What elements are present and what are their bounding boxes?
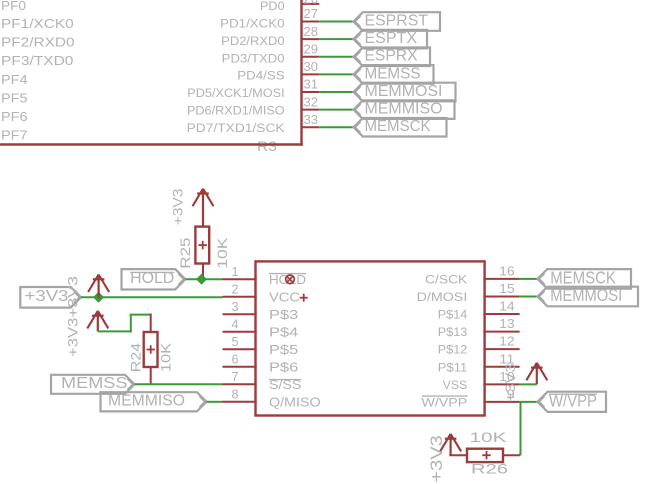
svg-text:15: 15 — [499, 281, 515, 296]
pin number 26 — [304, 0, 319, 6]
pin name PD2/RXD0 — [221, 34, 285, 48]
wire net MEMSS pin7 — [135, 383, 223, 385]
net label ESPRX — [354, 47, 431, 66]
pin name P$14 — [438, 308, 468, 322]
svg-text:PD1/XCK0: PD1/XCK0 — [220, 16, 285, 30]
svg-text:MEMSCK: MEMSCK — [365, 118, 432, 135]
svg-text:3: 3 — [232, 299, 239, 314]
svg-text:16: 16 — [499, 263, 515, 278]
wire net W/VPP pin9 — [520, 401, 539, 403]
pin 16 stub — [483, 278, 519, 280]
pin number 3 — [232, 299, 239, 314]
svg-text:Q/MISO: Q/MISO — [269, 395, 321, 410]
pin number 4 — [232, 316, 239, 331]
svg-text:HOLD: HOLD — [269, 272, 306, 287]
overline on HOLD flag text — [130, 271, 174, 273]
svg-text:PD0: PD0 — [260, 0, 285, 13]
pin name P$5 — [269, 342, 298, 357]
pin name PD5/XCK1/MOSI — [187, 86, 284, 100]
net label ESPRST — [354, 12, 441, 31]
pin name PD1/XCK0 — [220, 16, 285, 30]
pin number 5 — [232, 334, 239, 349]
+3V3 label (rotated, VSS arrow) — [502, 363, 518, 402]
label R26 — [471, 460, 508, 476]
+3V3 label (rotated, R26 arrow) — [428, 435, 446, 482]
svg-text:14: 14 — [499, 299, 515, 314]
svg-text:VCC: VCC — [269, 290, 300, 305]
pin number 12 — [499, 334, 515, 349]
IC U2 (SPI flash) box — [256, 261, 485, 415]
pin name PD7/TXD1/SCK — [187, 121, 286, 135]
net label MEMMISO (left) — [101, 392, 207, 411]
pin name PF6 — [1, 109, 28, 124]
pin 31 stub — [302, 91, 320, 93]
svg-text:W/VPP: W/VPP — [421, 395, 467, 409]
svg-text:P$14: P$14 — [438, 308, 468, 322]
pin 33 stub — [302, 126, 320, 128]
svg-text:31: 31 — [304, 77, 319, 92]
pin name PF7 — [1, 128, 28, 143]
wire W/VPP to R26 (vertical) — [520, 402, 522, 456]
pin name C/SCK — [425, 272, 468, 286]
wire net MEMSCK pin16 — [520, 278, 539, 280]
pin 32 stub — [302, 109, 320, 111]
svg-text:PD7/TXD1/SCK: PD7/TXD1/SCK — [187, 121, 286, 135]
pin name PF0 — [1, 0, 26, 13]
svg-text:8: 8 — [232, 386, 239, 401]
pin number 14 — [499, 299, 515, 314]
net label MEMSS — [354, 65, 434, 84]
wire net MEMMISO — [319, 109, 354, 111]
resistor R25 — [195, 227, 209, 280]
svg-text:VSS: VSS — [443, 378, 468, 392]
wire net HOLD pin1 — [185, 278, 222, 280]
overline on pin name W/VPP (W) — [422, 395, 468, 397]
svg-text:MEMSS: MEMSS — [61, 375, 128, 392]
pin 12 stub — [483, 348, 519, 350]
wire net MEMMOSI pin15 — [520, 295, 539, 297]
svg-text:MEMMOSI: MEMMOSI — [365, 83, 443, 100]
svg-text:PF3/TXD0: PF3/TXD0 — [1, 53, 73, 68]
pin 6 stub — [223, 366, 257, 368]
pin 11 stub — [483, 366, 519, 368]
svg-text:+3V3: +3V3 — [64, 317, 80, 357]
pin name P$3 — [269, 307, 298, 322]
wire +3V3 to R24 (top horizontal) — [130, 314, 152, 316]
label R25 (rotated) — [177, 237, 193, 268]
svg-text:PD3/TXD0: PD3/TXD0 — [222, 51, 285, 65]
svg-text:2: 2 — [232, 281, 239, 296]
+3V3 supply arrow (pin2 junction) — [88, 275, 109, 298]
pin 4 stub — [223, 331, 257, 333]
pin 10 stub — [483, 383, 519, 385]
pin 28 stub — [302, 38, 320, 40]
pin name P$13 — [438, 325, 468, 339]
pin 29 stub — [302, 56, 320, 58]
pin number 29 — [304, 41, 319, 56]
wire net ESPRST — [319, 21, 354, 23]
svg-text:13: 13 — [499, 316, 515, 331]
net label MEMSCK (right) — [538, 267, 632, 288]
overline on W/VPP flag text (W) — [549, 393, 597, 395]
pin name W/VPP — [421, 395, 467, 409]
pin name PF5 — [1, 90, 28, 105]
pin number 28 — [304, 24, 319, 39]
pin number 33 — [304, 112, 319, 127]
pin number 31 — [304, 77, 319, 92]
svg-text:PD2/RXD0: PD2/RXD0 — [221, 34, 285, 48]
svg-text:PF7: PF7 — [1, 128, 28, 143]
pin number 10 — [499, 369, 515, 384]
wire net MEMMOSI — [319, 91, 354, 93]
svg-text:27: 27 — [304, 6, 319, 21]
pin name VSS — [443, 378, 468, 392]
svg-text:10K: 10K — [158, 342, 174, 372]
pin 27 stub — [302, 21, 320, 23]
svg-text:30: 30 — [304, 59, 319, 74]
net label +3V3 (flag) — [20, 287, 81, 308]
+3V3 label (rotated, upper-left) — [64, 276, 80, 318]
pin 7 stub — [223, 383, 257, 385]
junction pin1/R25 — [196, 274, 207, 285]
+3V3 label (rotated, near R25 arrow) — [170, 188, 186, 225]
wire +3V3 to R24 (vertical) — [130, 315, 132, 333]
svg-text:P$6: P$6 — [269, 360, 298, 375]
svg-text:MEMMISO: MEMMISO — [108, 393, 185, 410]
pin 1 stub — [223, 278, 257, 280]
svg-text:W/VPP: W/VPP — [549, 390, 597, 410]
pin name PD4/SS — [237, 69, 284, 83]
+3V3 supply arrow (VSS pin) — [526, 363, 547, 385]
+3V3 supply arrow (lower-left) — [87, 311, 108, 332]
svg-text:P$3: P$3 — [269, 307, 298, 322]
svg-text:32: 32 — [304, 94, 319, 109]
wire +3V3 to R24 (horizontal) — [98, 330, 132, 332]
svg-text:D/MOSI: D/MOSI — [417, 290, 468, 304]
svg-text:6: 6 — [232, 351, 239, 366]
label R24 (rotated) — [128, 343, 144, 373]
svg-text:PF5: PF5 — [1, 90, 28, 105]
pin name P$11 — [438, 360, 468, 374]
svg-text:MEMMISO: MEMMISO — [365, 101, 443, 118]
pin number 2 — [232, 281, 239, 296]
pin 15 stub — [483, 295, 519, 297]
svg-text:29: 29 — [304, 41, 319, 56]
pin name D/MOSI — [417, 290, 468, 304]
net label HOLD — [122, 269, 186, 289]
net label W/VPP (right) — [538, 390, 607, 412]
pin name S/SS — [269, 377, 302, 392]
pin 3 stub — [223, 313, 257, 315]
pin number 30 — [304, 59, 319, 74]
svg-text:P$13: P$13 — [438, 325, 468, 339]
svg-text:R25: R25 — [177, 237, 193, 268]
svg-text:ESPRST: ESPRST — [365, 12, 429, 29]
svg-text:R3: R3 — [257, 138, 277, 154]
svg-text:1: 1 — [232, 264, 239, 279]
svg-text:+3V3: +3V3 — [64, 276, 80, 318]
svg-text:PD6/RXD1/MISO: PD6/RXD1/MISO — [187, 104, 285, 118]
svg-text:P$12: P$12 — [438, 343, 468, 357]
pin name P$4 — [269, 325, 298, 340]
wire net MEMSCK — [319, 126, 354, 128]
pin number 8 — [232, 386, 239, 401]
svg-text:R24: R24 — [128, 343, 144, 373]
origin cross on HOLD pin name — [286, 275, 295, 284]
junction pin2/+3V3 arrow — [93, 292, 104, 303]
svg-text:28: 28 — [304, 24, 319, 39]
svg-text:12: 12 — [499, 334, 515, 349]
svg-text:+3V3: +3V3 — [428, 435, 446, 482]
text R3 — [257, 138, 277, 154]
svg-text:ESPRX: ESPRX — [365, 48, 419, 65]
IC U1 (ATmega, partially visible) box — [0, 0, 303, 146]
pin number 13 — [499, 316, 515, 331]
net label MEMMOSI (right) — [538, 285, 639, 306]
pin 2 stub — [223, 296, 257, 298]
svg-text:PF1/XCK0: PF1/XCK0 — [1, 16, 74, 31]
pin name PF3/TXD0 — [1, 53, 73, 68]
pin 9 stub — [483, 401, 519, 403]
+3V3 supply arrow (above R25) — [193, 189, 214, 227]
svg-text:PD5/XCK1/MOSI: PD5/XCK1/MOSI — [187, 86, 284, 100]
svg-text:PD4/SS: PD4/SS — [237, 69, 284, 83]
wire net +3V3 pin2 — [81, 296, 223, 298]
net label MEMMOSI — [354, 83, 456, 102]
svg-text:R26: R26 — [471, 460, 508, 476]
svg-text:MEMMOSI: MEMMOSI — [550, 285, 622, 305]
svg-text:+3V3: +3V3 — [25, 288, 69, 305]
svg-text:33: 33 — [304, 112, 319, 127]
pin number 9 — [507, 386, 515, 401]
svg-text:PF0: PF0 — [1, 0, 26, 13]
svg-text:PF6: PF6 — [1, 109, 28, 124]
red plus after VCC — [300, 294, 308, 302]
pin number 6 — [232, 351, 239, 366]
pin name PF1/XCK0 — [1, 16, 74, 31]
pin number 1 — [232, 264, 239, 279]
resistor R24 — [144, 314, 158, 385]
svg-text:10K: 10K — [470, 429, 508, 445]
wire net +3V3 pin10 (VSS) — [520, 383, 537, 385]
pin name P$12 — [438, 343, 468, 357]
pin name PD3/TXD0 — [222, 51, 285, 65]
pin name VCC — [269, 290, 300, 305]
pin name P$6 — [269, 360, 298, 375]
pin name PF2/RXD0 — [1, 35, 75, 50]
+3V3 label (rotated, lower-left) — [64, 317, 80, 357]
pin name PD0 — [260, 0, 285, 13]
wire net ESPTX — [319, 38, 354, 40]
svg-text:P$11: P$11 — [438, 360, 468, 374]
pin number 32 — [304, 94, 319, 109]
svg-text:+3V3: +3V3 — [170, 188, 186, 225]
pin 5 stub — [223, 348, 257, 350]
pin 8 stub — [223, 401, 257, 403]
overline on pin name S/SS (first S) — [269, 379, 301, 381]
svg-text:C/SCK: C/SCK — [425, 272, 468, 286]
net label MEMSS (left) — [51, 375, 135, 394]
pin name HOLD — [269, 272, 306, 287]
wire net MEMSS — [319, 73, 354, 75]
net label MEMMISO — [354, 100, 455, 119]
resistor R26 — [449, 449, 520, 462]
pin 13 stub — [483, 331, 519, 333]
value 10K of R24 (rotated) — [158, 342, 174, 372]
pin name Q/MISO — [269, 395, 321, 410]
svg-text:ESPTX: ESPTX — [365, 30, 418, 47]
svg-text:4: 4 — [232, 316, 239, 331]
svg-text:10K: 10K — [214, 237, 230, 269]
svg-text:PF4: PF4 — [1, 72, 28, 87]
pin number 15 — [499, 281, 515, 296]
value 10K of R25 (rotated) — [214, 237, 230, 269]
pin number 11 — [499, 351, 515, 366]
svg-text:P$5: P$5 — [269, 342, 298, 357]
svg-text:P$4: P$4 — [269, 325, 298, 340]
pin number 27 — [304, 6, 319, 21]
svg-text:MEMSS: MEMSS — [365, 65, 421, 82]
svg-text:7: 7 — [232, 369, 239, 384]
wire net ESPRX — [319, 56, 354, 58]
wire net MEMMISO pin8 — [207, 401, 223, 403]
pin name PF4 — [1, 72, 28, 87]
net label ESPTX — [354, 30, 428, 49]
svg-text:+3V3: +3V3 — [502, 363, 518, 402]
value 10K of R26 — [470, 429, 508, 445]
pin 30 stub — [302, 73, 320, 75]
svg-text:PF2/RXD0: PF2/RXD0 — [1, 35, 75, 50]
wire W/VPP to R26 (corner) — [519, 454, 522, 456]
pin name PD6/RXD1/MISO — [187, 104, 285, 118]
pin 14 stub — [483, 313, 519, 315]
pin 26 stub — [302, 3, 320, 5]
overline on pin name HOLD — [269, 273, 306, 275]
net label MEMSCK — [354, 118, 447, 137]
pin number 16 — [499, 263, 515, 278]
pin number 7 — [232, 369, 239, 384]
+3V3 supply arrow (R26) — [440, 434, 461, 455]
svg-text:5: 5 — [232, 334, 239, 349]
